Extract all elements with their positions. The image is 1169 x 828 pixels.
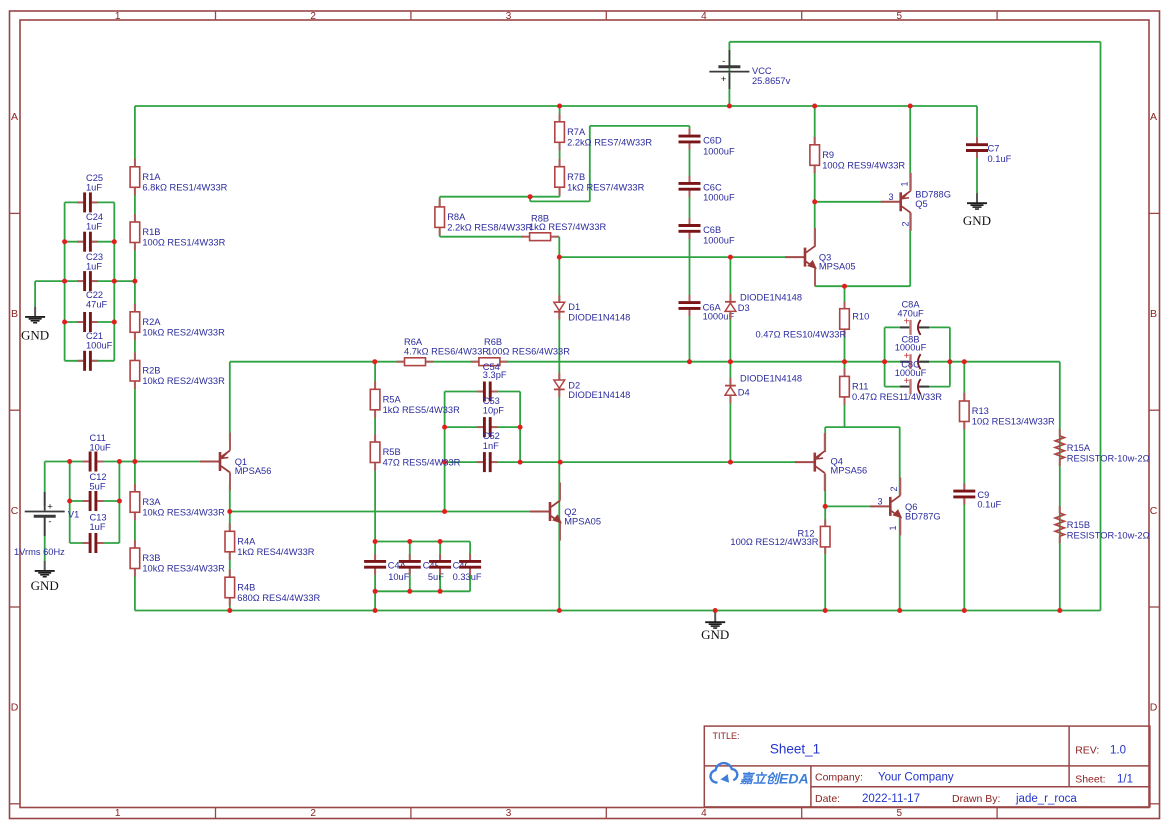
svg-text:1uF: 1uF xyxy=(86,261,102,271)
svg-text:GND: GND xyxy=(963,213,991,228)
wire C52 row to Q4 base xyxy=(445,461,796,463)
svg-text:Drawn By:: Drawn By: xyxy=(952,793,1000,805)
wire R8A bottom stub xyxy=(439,230,441,237)
ground GND at C7 xyxy=(976,193,978,203)
junction (229.8,511.5) xyxy=(227,509,232,514)
junction (229.8,610.5) xyxy=(227,608,232,613)
svg-text:10kΩ RES2/4W33R: 10kΩ RES2/4W33R xyxy=(142,327,225,337)
svg-text:5: 5 xyxy=(897,11,903,22)
svg-text:A: A xyxy=(11,111,18,123)
svg-text:+: + xyxy=(721,74,727,85)
junction (825.2,610.5) xyxy=(823,608,828,613)
wire bus to Q3 base xyxy=(559,256,785,258)
wire V1 bottom stem xyxy=(44,517,46,562)
svg-text:C13: C13 xyxy=(90,512,107,522)
svg-text:R5B: R5B xyxy=(383,447,401,457)
wire C11 ladder left rail xyxy=(69,462,71,544)
svg-text:10kΩ RES2/4W33R: 10kΩ RES2/4W33R xyxy=(142,376,225,386)
svg-text:5: 5 xyxy=(897,808,903,819)
svg-text:10kΩ RES3/4W33R: 10kΩ RES3/4W33R xyxy=(142,507,225,517)
resistor R4A xyxy=(229,523,231,531)
svg-text:RESISTOR-10w-2Ω: RESISTOR-10w-2Ω xyxy=(1067,453,1150,463)
svg-text:R1A: R1A xyxy=(142,172,161,182)
resistor R15B zigzag xyxy=(1059,506,1061,513)
junction (409.8,591.3) xyxy=(407,589,412,594)
voltage source V1 xyxy=(25,511,65,513)
svg-text:3: 3 xyxy=(506,11,512,22)
svg-text:B: B xyxy=(1150,308,1157,320)
svg-text:C24: C24 xyxy=(86,212,103,222)
svg-text:1kΩ RES4/4W33R: 1kΩ RES4/4W33R xyxy=(237,547,315,557)
junction (730.4,462.1) xyxy=(728,460,733,465)
svg-text:jade_r_roca: jade_r_roca xyxy=(1015,793,1077,805)
capacitor C6B xyxy=(687,224,691,233)
capacitor C6D xyxy=(687,134,691,143)
svg-text:A: A xyxy=(1150,111,1157,123)
ground GND left xyxy=(34,307,36,317)
svg-text:TITLE:: TITLE: xyxy=(713,731,740,741)
svg-text:0.33uF: 0.33uF xyxy=(453,572,482,582)
capacitor C52 xyxy=(483,460,492,464)
svg-text:BD788G: BD788G xyxy=(915,189,951,199)
title block xyxy=(704,726,1150,807)
wire C21 row xyxy=(65,360,115,362)
svg-text:1Vrms 60Hz: 1Vrms 60Hz xyxy=(14,547,65,557)
wire Q1 collector to Q2 base xyxy=(230,511,531,513)
junction (134.9,281.1) xyxy=(132,279,137,284)
transistor Q2 (NPN MPSA05) xyxy=(530,511,550,513)
svg-text:MPSA56: MPSA56 xyxy=(831,466,868,476)
capacitor C24 xyxy=(83,240,92,244)
wire C13 row xyxy=(70,542,120,544)
junction (964.3,361.7) xyxy=(962,359,967,364)
svg-text:GND: GND xyxy=(21,328,49,343)
wire C5 ladder left rail xyxy=(444,392,446,512)
capacitor C11 xyxy=(88,459,97,463)
wire jog to C6 ladder xyxy=(530,200,590,202)
svg-text:Sheet:: Sheet: xyxy=(1075,774,1105,786)
resistor R10 xyxy=(844,302,846,309)
wire R11 bottom row xyxy=(825,426,900,428)
capacitor C8C (polarized) xyxy=(908,384,919,388)
resistor R3A xyxy=(134,484,136,492)
capacitor C6A xyxy=(687,301,691,310)
junction (715.2,610.5) xyxy=(713,608,718,613)
capacitor C9 xyxy=(962,489,966,498)
svg-text:2: 2 xyxy=(310,808,316,819)
svg-text:D: D xyxy=(1150,702,1158,714)
svg-text:2.2kΩ RES7/4W33R: 2.2kΩ RES7/4W33R xyxy=(567,137,652,147)
junction (64.6,281.1) xyxy=(62,279,67,284)
junction (560.2,462.1) xyxy=(558,460,563,465)
junction (440.1,591.3) xyxy=(438,589,443,594)
junction (899.7,610.5) xyxy=(897,608,902,613)
svg-text:1uF: 1uF xyxy=(90,522,106,532)
wire V1 top stem xyxy=(44,462,46,507)
wire C8A row xyxy=(885,326,950,328)
svg-text:R15A: R15A xyxy=(1067,443,1091,453)
wire R5 / C4 chain rail xyxy=(374,362,376,611)
wire C2x ladder right rail xyxy=(113,202,115,360)
junction (814.7,106) xyxy=(812,104,817,109)
junction (1059.8,610.5) xyxy=(1057,608,1062,613)
wire C7 branch xyxy=(976,106,978,194)
junction (64.6,322) xyxy=(62,320,67,325)
junction (114.3,241.7) xyxy=(112,239,117,244)
wire Q5 collector rail xyxy=(909,213,911,286)
capacitor C12 xyxy=(88,499,97,503)
svg-text:R4B: R4B xyxy=(237,582,255,592)
svg-text:MPSA56: MPSA56 xyxy=(235,466,272,476)
svg-text:+: + xyxy=(47,502,53,513)
svg-text:C23: C23 xyxy=(86,252,103,262)
svg-text:R1B: R1B xyxy=(142,227,160,237)
voltage source VCC battery xyxy=(718,65,740,68)
junction (444.6,511.5) xyxy=(442,509,447,514)
svg-text:1uF: 1uF xyxy=(86,183,102,193)
wire jog at R7B junction xyxy=(529,197,531,202)
capacitor C54 xyxy=(483,389,492,393)
junction (69.7,501) xyxy=(67,499,72,504)
svg-text:R9: R9 xyxy=(822,150,834,160)
svg-text:10uF: 10uF xyxy=(90,443,112,453)
junction (134.9,461.5) xyxy=(132,459,137,464)
resistor R1B xyxy=(134,214,136,222)
capacitor C4D xyxy=(468,560,472,569)
resistor R7B xyxy=(559,159,561,167)
junction (844.5,361.7) xyxy=(842,359,847,364)
svg-text:C6B: C6B xyxy=(703,225,721,235)
svg-text:C25: C25 xyxy=(86,173,103,183)
capacitor C6C xyxy=(687,182,691,191)
resistor R6A xyxy=(397,361,405,363)
svg-text:1kΩ RES7/4W33R: 1kΩ RES7/4W33R xyxy=(529,222,607,232)
svg-text:4: 4 xyxy=(701,11,707,22)
svg-text:100Ω RES9/4W33R: 100Ω RES9/4W33R xyxy=(822,160,905,170)
svg-text:2: 2 xyxy=(310,11,316,22)
resistor R12 xyxy=(824,519,826,526)
svg-text:4: 4 xyxy=(701,808,707,819)
wire bottom ground bus xyxy=(135,610,1101,612)
svg-text:C11: C11 xyxy=(90,433,106,443)
capacitor C4C xyxy=(438,560,442,569)
junction (119.4,461.5) xyxy=(117,459,122,464)
svg-text:2022-11-17: 2022-11-17 xyxy=(862,793,920,805)
wire GND spur to C2x ladder xyxy=(35,280,135,282)
junction (114.3,281.1) xyxy=(112,279,117,284)
capacitor C4A xyxy=(373,560,377,569)
wire R15 chain xyxy=(1059,362,1061,611)
svg-text:GND: GND xyxy=(31,578,59,593)
svg-text:3: 3 xyxy=(506,808,512,819)
wire C8C row xyxy=(885,386,950,388)
svg-text:R11: R11 xyxy=(852,382,868,392)
svg-text:Your Company: Your Company xyxy=(878,772,954,784)
capacitor C4B xyxy=(408,560,412,569)
logo JLCEDA xyxy=(710,763,737,782)
svg-text:D1: D1 xyxy=(568,302,580,312)
capacitor C25 xyxy=(83,200,92,204)
svg-text:10pF: 10pF xyxy=(483,406,505,416)
wire C6 ladder top xyxy=(590,125,690,127)
svg-text:10Ω RES13/4W33R: 10Ω RES13/4W33R xyxy=(972,417,1055,427)
junction (730.4,257.1) xyxy=(728,255,733,260)
wire C53 row xyxy=(445,426,520,428)
resistor R3B xyxy=(134,540,136,548)
wire Q5 emitter rail xyxy=(909,106,911,190)
wire V1 to Q1 base xyxy=(45,461,201,463)
diode D1 xyxy=(558,295,560,302)
junction (440.1,541.5) xyxy=(438,539,443,544)
svg-text:C53: C53 xyxy=(483,396,500,406)
wire R8B right stub xyxy=(556,236,560,238)
svg-text:4.7kΩ RES6/4W33R: 4.7kΩ RES6/4W33R xyxy=(404,347,489,357)
svg-text:R7A: R7A xyxy=(567,127,586,137)
wire GND stem left xyxy=(34,281,36,307)
svg-text:3: 3 xyxy=(877,496,882,506)
junction (409.8,541.5) xyxy=(407,539,412,544)
svg-text:1/1: 1/1 xyxy=(1117,774,1133,786)
diode D4 xyxy=(729,378,731,385)
svg-text:1: 1 xyxy=(888,525,898,530)
wire C6 ladder rail xyxy=(689,126,691,362)
wire R7 chain xyxy=(559,106,561,197)
wire C4B drop xyxy=(409,542,411,592)
svg-text:10uF: 10uF xyxy=(388,572,410,582)
wire C5 ladder right rail xyxy=(519,392,521,463)
svg-text:47uF: 47uF xyxy=(86,300,108,310)
svg-text:0.47Ω RES11/4W33R: 0.47Ω RES11/4W33R xyxy=(852,392,942,402)
resistor R1A xyxy=(134,159,136,167)
svg-text:C6C: C6C xyxy=(703,183,722,193)
svg-text:R3B: R3B xyxy=(142,553,160,563)
svg-text:1000uF: 1000uF xyxy=(703,193,735,203)
junction (375.1,610.5) xyxy=(373,608,378,613)
svg-text:DIODE1N4148: DIODE1N4148 xyxy=(740,293,802,303)
ground GND under V1 xyxy=(44,561,46,571)
wire C24 row xyxy=(65,241,115,243)
wire Q4 collector / R12 chain xyxy=(824,474,826,611)
resistor R9 xyxy=(814,137,816,145)
svg-text:MPSA05: MPSA05 xyxy=(564,516,601,526)
wire C4C drop xyxy=(439,542,441,592)
wire left R1-R4 chain rail xyxy=(134,106,136,611)
svg-text:R3A: R3A xyxy=(142,497,161,507)
svg-text:25.8657v: 25.8657v xyxy=(752,76,791,86)
transistor Q1 (PNP MPSA56) xyxy=(200,461,220,463)
wire C8 ladder left rail xyxy=(884,327,886,386)
junction (910.2,106) xyxy=(908,104,913,109)
svg-text:R6B: R6B xyxy=(484,337,502,347)
wire R9 to Q5 base xyxy=(815,201,882,203)
resistor R4B xyxy=(229,569,231,577)
junction (964.3,610.5) xyxy=(962,608,967,613)
svg-text:0.1uF: 0.1uF xyxy=(988,154,1012,164)
wire Q4 collector to Q6 base xyxy=(825,505,871,507)
wire Q6 emitter rail xyxy=(899,518,901,611)
diode D2 xyxy=(558,373,560,380)
wire VCC top link xyxy=(729,41,1100,43)
junction (559.6,106) xyxy=(557,104,562,109)
capacitor C13 xyxy=(88,541,97,545)
svg-text:1: 1 xyxy=(115,11,121,22)
wire Q3 emitter row xyxy=(815,285,911,287)
transistor Q5 (PNP BD788G) xyxy=(881,201,901,203)
svg-text:1: 1 xyxy=(900,181,910,186)
wire C8 ladder right rail xyxy=(949,327,951,386)
capacitor C7 xyxy=(975,143,979,152)
capacitor C21 xyxy=(83,359,92,363)
svg-text:Date:: Date: xyxy=(815,793,840,805)
junction (375.1,541.5) xyxy=(373,539,378,544)
svg-text:C: C xyxy=(1150,505,1158,517)
junction (64.6,241.7) xyxy=(62,239,67,244)
svg-text:D4: D4 xyxy=(738,388,750,398)
svg-text:DIODE1N4148: DIODE1N4148 xyxy=(740,373,802,383)
svg-text:DIODE1N4148: DIODE1N4148 xyxy=(568,312,630,322)
wire R8A to R8B xyxy=(440,236,523,238)
svg-text:2: 2 xyxy=(901,221,911,226)
junction (444.6,462.1) xyxy=(442,460,447,465)
wire R8A top stub xyxy=(439,197,441,207)
svg-text:R6A: R6A xyxy=(404,337,423,347)
svg-text:Company:: Company: xyxy=(815,772,863,784)
svg-text:C12: C12 xyxy=(90,472,107,482)
wire C12 row xyxy=(70,500,120,502)
svg-text:1kΩ RES7/4W33R: 1kΩ RES7/4W33R xyxy=(567,182,645,192)
capacitor C53 xyxy=(483,425,492,429)
svg-text:100Ω RES6/4W33R: 100Ω RES6/4W33R xyxy=(487,347,570,357)
svg-text:470uF: 470uF xyxy=(897,308,924,318)
wire VCC battery stem xyxy=(728,42,730,106)
wire Q1 emitter rail xyxy=(229,362,231,441)
svg-text:Q5: Q5 xyxy=(915,199,927,209)
wire R13 C9 chain xyxy=(963,362,965,611)
svg-text:Sheet_1: Sheet_1 xyxy=(770,742,820,757)
svg-text:VCC: VCC xyxy=(752,66,772,76)
svg-text:R2B: R2B xyxy=(142,366,160,376)
svg-text:R7B: R7B xyxy=(567,172,585,182)
junction (530.1,196.7) xyxy=(528,194,533,199)
resistor R2A xyxy=(134,304,136,312)
svg-text:-: - xyxy=(48,517,51,528)
junction (559.3,610.5) xyxy=(557,608,562,613)
wire C25 row xyxy=(65,201,115,203)
ground GND bottom xyxy=(714,612,716,622)
svg-text:B: B xyxy=(11,308,18,320)
diode D3 xyxy=(729,294,731,301)
svg-text:3.3pF: 3.3pF xyxy=(483,370,507,380)
transistor Q6 (NPN BD787G) xyxy=(870,505,890,507)
wire C4 ladder top xyxy=(375,541,470,543)
wire Q6 collector stub xyxy=(899,427,901,496)
capacitor C22 xyxy=(83,320,92,324)
wire C22 row xyxy=(65,321,115,323)
wire D3 D4 rail xyxy=(729,257,731,462)
svg-text:GND: GND xyxy=(701,627,729,642)
wire R9 chain xyxy=(814,106,816,247)
junction (69.7,461.5) xyxy=(67,459,72,464)
svg-text:100uF: 100uF xyxy=(86,340,113,350)
wire C11 ladder right rail xyxy=(118,462,120,544)
wire C54 row xyxy=(445,391,520,393)
resistor R8B xyxy=(522,236,530,238)
wire R7B to R8A link xyxy=(440,196,560,198)
resistor R13 xyxy=(963,393,965,401)
svg-text:R8A: R8A xyxy=(447,212,466,222)
resistor R7A xyxy=(559,114,561,122)
svg-text:1nF: 1nF xyxy=(483,441,499,451)
transistor Q3 (NPN MPSA05) xyxy=(785,256,805,258)
svg-text:0.47Ω RES10/4W33R: 0.47Ω RES10/4W33R xyxy=(756,329,847,339)
resistor R6B xyxy=(471,361,479,363)
svg-text:D3: D3 xyxy=(738,303,750,313)
svg-text:嘉立创: 嘉立创 xyxy=(739,771,781,786)
junction (520.1,427.1) xyxy=(518,425,523,430)
wire D1 D2 Q2 rail xyxy=(558,237,560,611)
junction (374.8,361.7) xyxy=(372,359,377,364)
svg-text:680Ω RES4/4W33R: 680Ω RES4/4W33R xyxy=(237,593,320,603)
wire right VCC drop rail xyxy=(1100,42,1102,611)
wire C4 ladder bottom xyxy=(375,590,470,592)
capacitor C8A (polarized) xyxy=(908,325,919,329)
wire C6 ladder feed riser xyxy=(589,126,591,201)
junction (689.5,361.7) xyxy=(687,359,692,364)
junction (520.1,462.1) xyxy=(518,460,523,465)
capacitor C23 xyxy=(83,279,92,283)
junction (730.4,361.7) xyxy=(728,359,733,364)
svg-text:C22: C22 xyxy=(86,290,103,300)
resistor R8A xyxy=(439,199,441,207)
svg-text:C: C xyxy=(11,505,19,517)
svg-text:BD787G: BD787G xyxy=(905,511,941,521)
svg-text:R10: R10 xyxy=(852,312,869,322)
junction (844.5,286.2) xyxy=(842,284,847,289)
svg-text:R15B: R15B xyxy=(1067,520,1090,530)
resistor R5A xyxy=(374,381,376,389)
svg-text:RESISTOR-10w-2Ω: RESISTOR-10w-2Ω xyxy=(1067,530,1150,540)
svg-text:1000uF: 1000uF xyxy=(895,343,927,353)
junction (559.3,257.1) xyxy=(557,255,562,260)
svg-text:10kΩ RES3/4W33R: 10kΩ RES3/4W33R xyxy=(142,564,225,574)
svg-text:1000uF: 1000uF xyxy=(703,147,735,157)
svg-text:1.0: 1.0 xyxy=(1110,745,1126,757)
svg-text:C52: C52 xyxy=(483,431,500,441)
svg-text:1kΩ RES5/4W33R: 1kΩ RES5/4W33R xyxy=(383,405,461,415)
svg-text:47Ω RES5/4W33R: 47Ω RES5/4W33R xyxy=(383,458,461,468)
wire R10 link xyxy=(844,286,846,362)
svg-text:3: 3 xyxy=(888,192,893,202)
svg-text:REV:: REV: xyxy=(1075,745,1099,757)
junction (814.7,201.8) xyxy=(812,199,817,204)
resistor R11 xyxy=(844,368,846,376)
wire C2x ladder left rail xyxy=(64,202,66,360)
svg-text:EDA: EDA xyxy=(779,771,809,787)
wire Q1 collector / R4 chain rail xyxy=(229,483,231,611)
svg-text:R5A: R5A xyxy=(383,395,402,405)
junction (949.9,361.7) xyxy=(947,359,952,364)
svg-text:1000uF: 1000uF xyxy=(895,368,927,378)
svg-text:R13: R13 xyxy=(972,406,989,416)
junction (119.4,501) xyxy=(117,499,122,504)
svg-text:100Ω RES1/4W33R: 100Ω RES1/4W33R xyxy=(142,238,225,248)
svg-text:R2A: R2A xyxy=(142,317,161,327)
wire mid rail xyxy=(230,361,1060,363)
svg-text:C6D: C6D xyxy=(703,136,722,146)
svg-text:0.1uF: 0.1uF xyxy=(977,500,1001,510)
junction (444.6,427.1) xyxy=(442,425,447,430)
junction (114.3,322) xyxy=(112,320,117,325)
